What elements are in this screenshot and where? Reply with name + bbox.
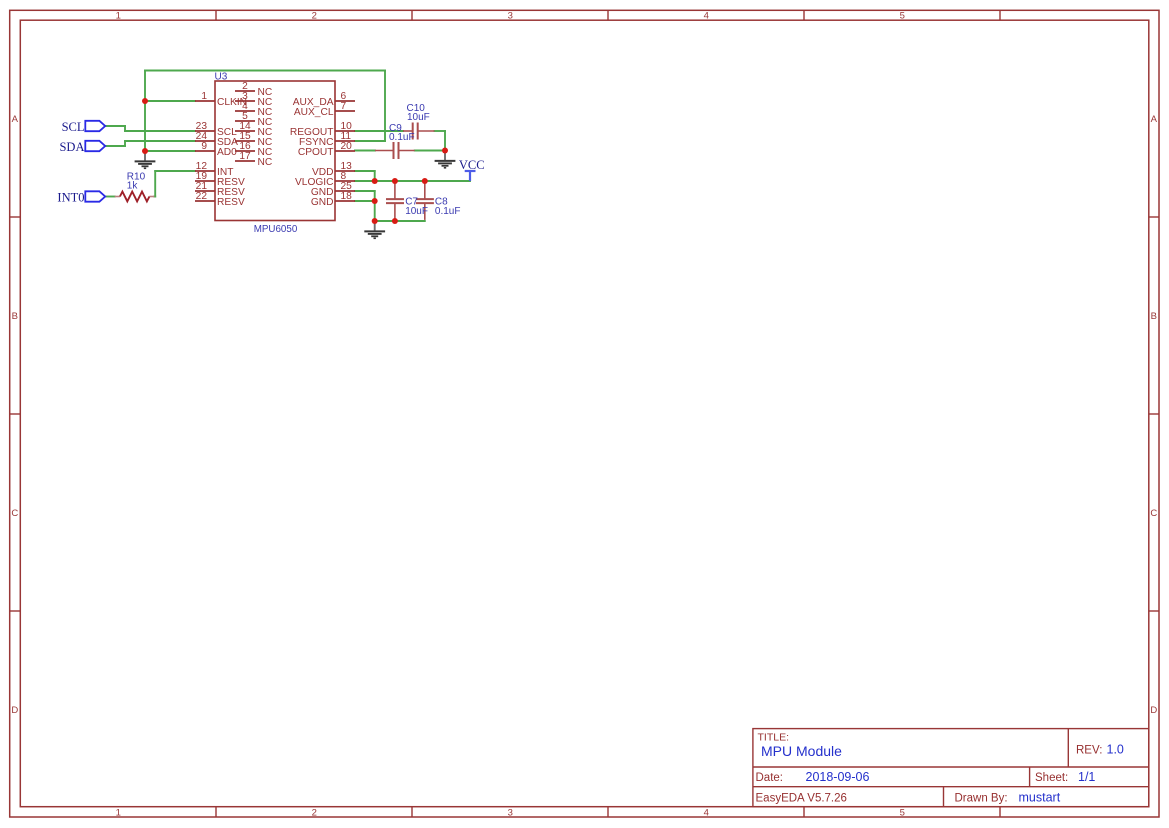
svg-text:Drawn By:: Drawn By: bbox=[955, 793, 1008, 805]
svg-text:5: 5 bbox=[900, 11, 905, 22]
svg-text:5: 5 bbox=[900, 807, 905, 818]
svg-text:U3: U3 bbox=[215, 71, 228, 82]
svg-text:1: 1 bbox=[116, 11, 121, 22]
svg-text:10uF: 10uF bbox=[405, 206, 428, 217]
svg-text:2018-09-06: 2018-09-06 bbox=[806, 770, 870, 784]
svg-text:SDA: SDA bbox=[59, 140, 84, 154]
svg-text:4: 4 bbox=[704, 807, 709, 818]
svg-text:MPU Module: MPU Module bbox=[761, 743, 842, 759]
svg-text:EasyEDA V5.7.26: EasyEDA V5.7.26 bbox=[756, 793, 847, 805]
svg-text:CPOUT: CPOUT bbox=[298, 147, 334, 158]
svg-text:4: 4 bbox=[704, 11, 709, 22]
svg-text:0.1uF: 0.1uF bbox=[389, 132, 415, 143]
svg-text:10uF: 10uF bbox=[407, 112, 430, 123]
svg-text:2: 2 bbox=[312, 11, 317, 22]
svg-text:AUX_CL: AUX_CL bbox=[294, 107, 334, 118]
svg-text:INT0: INT0 bbox=[57, 190, 84, 204]
svg-text:2: 2 bbox=[312, 807, 317, 818]
svg-text:3: 3 bbox=[508, 807, 513, 818]
svg-text:B: B bbox=[12, 311, 18, 322]
svg-text:TITLE:: TITLE: bbox=[758, 732, 790, 744]
svg-text:C: C bbox=[11, 508, 18, 519]
svg-text:D: D bbox=[11, 705, 18, 716]
svg-text:VCC: VCC bbox=[459, 158, 485, 172]
svg-text:18: 18 bbox=[341, 191, 353, 202]
svg-text:0.1uF: 0.1uF bbox=[435, 206, 461, 217]
svg-text:1k: 1k bbox=[127, 181, 139, 192]
svg-text:Date:: Date: bbox=[756, 772, 784, 784]
svg-text:MPU6050: MPU6050 bbox=[254, 224, 298, 235]
svg-text:1: 1 bbox=[201, 91, 207, 102]
svg-text:20: 20 bbox=[341, 141, 353, 152]
svg-text:B: B bbox=[1151, 311, 1157, 322]
svg-text:AD0: AD0 bbox=[217, 147, 237, 158]
svg-text:C: C bbox=[1150, 508, 1157, 519]
svg-text:22: 22 bbox=[196, 191, 208, 202]
svg-text:A: A bbox=[1151, 114, 1158, 125]
svg-text:7: 7 bbox=[341, 101, 347, 112]
svg-text:1.0: 1.0 bbox=[1107, 743, 1124, 757]
svg-text:Sheet:: Sheet: bbox=[1035, 772, 1068, 784]
svg-text:CLKIN: CLKIN bbox=[217, 97, 247, 108]
svg-text:D: D bbox=[1150, 705, 1157, 716]
svg-text:GND: GND bbox=[311, 197, 334, 208]
svg-text:17: 17 bbox=[239, 151, 251, 162]
svg-text:1: 1 bbox=[116, 807, 121, 818]
svg-text:9: 9 bbox=[201, 141, 207, 152]
svg-text:1/1: 1/1 bbox=[1078, 770, 1095, 784]
svg-text:mustart: mustart bbox=[1019, 791, 1061, 805]
svg-text:A: A bbox=[12, 114, 19, 125]
svg-text:RESV: RESV bbox=[217, 197, 245, 208]
svg-text:3: 3 bbox=[508, 11, 513, 22]
svg-text:NC: NC bbox=[258, 157, 273, 168]
svg-text:REV:: REV: bbox=[1076, 745, 1102, 757]
svg-text:SCL: SCL bbox=[62, 120, 85, 134]
